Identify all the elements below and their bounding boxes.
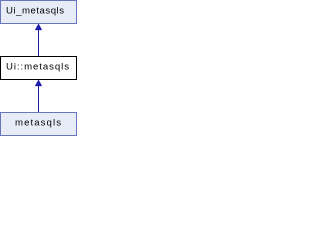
node metasqls (derived class box)	[1, 113, 77, 136]
svg-text:metasqls: metasqls	[15, 117, 61, 128]
node Ui::metasqls (current class box)	[1, 57, 77, 80]
inheritance arrow: Ui::metasqls to Ui_metasqls	[35, 24, 42, 57]
node Ui_metasqls (base class box)	[1, 1, 77, 24]
inheritance arrow: metasqls to Ui::metasqls	[35, 80, 42, 113]
svg-text:Ui::metasqls: Ui::metasqls	[6, 61, 69, 72]
svg-text:Ui_metasqls: Ui_metasqls	[6, 5, 64, 16]
